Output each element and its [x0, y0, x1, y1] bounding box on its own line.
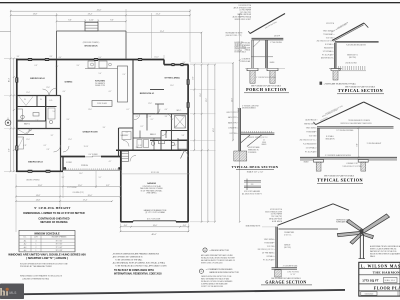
- svg-text:4'-0": 4'-0": [63, 91, 66, 93]
- svg-text:(SEE SECTIONS - TYP): (SEE SECTIONS - TYP): [226, 35, 243, 37]
- svg-text:12'-4": 12'-4": [68, 139, 72, 141]
- svg-text:KNEE: KNEE: [262, 142, 266, 144]
- svg-text:= SMOKE DETECTOR: = SMOKE DETECTOR: [210, 250, 230, 252]
- svg-text:R-13 WALL: R-13 WALL: [326, 135, 334, 138]
- svg-text:8'-0": 8'-0": [50, 56, 53, 58]
- svg-text:6X6 P.T. POST: 6X6 P.T. POST: [227, 112, 237, 114]
- svg-text:45: 45: [263, 140, 265, 142]
- svg-text:35" X 62": 35" X 62": [56, 241, 63, 243]
- svg-text:7/16" OSB: 7/16" OSB: [267, 246, 274, 248]
- svg-text:KITCHEN: KITCHEN: [95, 81, 105, 83]
- svg-text:CONT. FOOTING: CONT. FOOTING: [287, 272, 300, 274]
- svg-text:A-2: A-2: [24, 243, 27, 246]
- svg-text:11'-10": 11'-10": [154, 57, 159, 59]
- svg-text:= HURRICANE TIE ANCHORS (TYPIC: = HURRICANE TIE ANCHORS (TYPICAL): [324, 82, 356, 85]
- svg-text:- ALL MECHANICAL WORK (PLUMBIN: - ALL MECHANICAL WORK (PLUMBING, ELECTRI…: [112, 261, 166, 264]
- svg-text:9' CEILING HEIGHT: 9' CEILING HEIGHT: [367, 143, 382, 145]
- svg-text:5/12 PITCH: 5/12 PITCH: [326, 23, 334, 25]
- svg-text:4'-11": 4'-11": [23, 145, 27, 147]
- svg-text:h: h: [0, 288, 6, 299]
- svg-text:35" X 62": 35" X 62": [56, 244, 63, 246]
- svg-text:9' CEILING HEIGHT: 9' CEILING HEIGHT: [34, 206, 71, 210]
- svg-text:7/16" OSB (TYP): 7/16" OSB (TYP): [271, 216, 282, 218]
- svg-text:BEDROOM #1: BEDROOM #1: [347, 55, 358, 57]
- svg-text:GRADE: GRADE: [303, 161, 308, 164]
- svg-text:@ 16" O.C.: @ 16" O.C.: [284, 235, 292, 237]
- svg-text:(PRESSURE TREATED): (PRESSURE TREATED): [83, 41, 100, 44]
- svg-text:AND HARD WIRED/BATTERY BACK UP: AND HARD WIRED/BATTERY BACK UP AND: [201, 254, 234, 257]
- svg-text:MLS: MLS: [9, 291, 16, 295]
- svg-text:5'-4": 5'-4": [99, 73, 102, 75]
- svg-text:FLOOR PLAN: FLOOR PLAN: [374, 285, 400, 290]
- svg-text:EVERY LEVEL OF DWELLING: EVERY LEVEL OF DWELLING: [201, 262, 223, 264]
- svg-text:47'-6": 47'-6": [213, 128, 215, 132]
- svg-text:CONCRETE: CONCRETE: [242, 59, 250, 61]
- svg-text:10'-0": 10'-0": [170, 85, 174, 87]
- svg-text:INSULATION: INSULATION: [324, 47, 333, 50]
- svg-text:20'-0": 20'-0": [88, 195, 93, 197]
- svg-text:24'-2": 24'-2": [79, 173, 83, 175]
- svg-text:BEDROOM #1: BEDROOM #1: [140, 93, 155, 95]
- svg-text:4: 4: [36, 241, 37, 243]
- svg-text:6" T&G CEILING: 6" T&G CEILING: [270, 42, 282, 44]
- svg-text:CARBON MONOXIDE DETECTORS TO B: CARBON MONOXIDE DETECTORS TO BE: [201, 275, 231, 278]
- svg-text:GARAGE DOOR HEADER TO BE: GARAGE DOOR HEADER TO BE: [144, 209, 167, 212]
- svg-text:5/12 ROOF PITCH: 5/12 ROOF PITCH: [238, 5, 251, 7]
- svg-text:DRYWALL: DRYWALL: [267, 255, 274, 258]
- svg-text:- ANY OPENING KEY DIMENSION IS: - ANY OPENING KEY DIMENSION IS: [112, 255, 143, 258]
- svg-text:7/16" OSB: 7/16" OSB: [326, 37, 333, 39]
- svg-text:SIMPSON H2.5A HURRICANE TIE AN: SIMPSON H2.5A HURRICANE TIE ANCHORS: [340, 122, 371, 125]
- svg-text:3'-6": 3'-6": [67, 119, 70, 121]
- svg-text:SD: SD: [200, 271, 202, 273]
- svg-text:SCALE: 1/2" = 1'-0": SCALE: 1/2" = 1'-0": [247, 171, 264, 174]
- svg-text:COLUMNS (TYP): COLUMNS (TYP): [72, 192, 84, 194]
- svg-text:3'-1": 3'-1": [151, 119, 154, 121]
- svg-text:9'-0": 9'-0": [99, 57, 102, 59]
- svg-text:WINDOWS ARE UNITED VINYL DOUBL: WINDOWS ARE UNITED VINYL DOUBLE HUNG SER…: [8, 252, 86, 256]
- svg-text:3'-0": 3'-0": [183, 62, 186, 64]
- svg-text:35" X 38": 35" X 38": [56, 250, 63, 252]
- svg-text:ALUM. FASCIA: ALUM. FASCIA: [305, 119, 315, 122]
- svg-text:R-13 INSULATION: R-13 INSULATION: [303, 143, 316, 146]
- svg-text:GARAGE: GARAGE: [147, 182, 157, 185]
- svg-text:COLUMN: COLUMN: [243, 47, 250, 49]
- svg-text:4'-2": 4'-2": [182, 116, 185, 118]
- svg-text:PORCH: PORCH: [81, 165, 88, 167]
- svg-text:TYPICAL SECTION: TYPICAL SECTION: [338, 88, 383, 93]
- svg-text:GRADE BEAM NOTE:: GRADE BEAM NOTE:: [245, 224, 261, 227]
- svg-text:5'-8": 5'-8": [182, 135, 185, 137]
- svg-text:2'-8": 2'-8": [171, 119, 174, 121]
- svg-text:6'-2": 6'-2": [174, 145, 177, 147]
- svg-text:3'-8": 3'-8": [165, 116, 168, 118]
- svg-text:GREAT ROOM: GREAT ROOM: [83, 130, 98, 133]
- svg-text:16'-0": 16'-0": [153, 225, 158, 227]
- svg-text:TURN DOWN 12" FOOTING: TURN DOWN 12" FOOTING: [342, 166, 362, 168]
- svg-text:25'-6": 25'-6": [231, 98, 233, 102]
- svg-text:2'-6": 2'-6": [167, 140, 170, 142]
- svg-text:1/2" CEILING DRYWALL: 1/2" CEILING DRYWALL: [336, 129, 353, 132]
- svg-text:14'-8": 14'-8": [36, 200, 41, 202]
- svg-text:6'-1": 6'-1": [127, 109, 130, 111]
- svg-text:TYPICAL SECTION: TYPICAL SECTION: [317, 178, 363, 183]
- svg-text:CL: CL: [24, 99, 26, 101]
- svg-text:GARAGE SECTION: GARAGE SECTION: [265, 280, 306, 284]
- svg-text:8'-0": 8'-0": [193, 76, 195, 79]
- svg-text:11'-0": 11'-0": [78, 185, 83, 187]
- svg-text:VINYL SIDING: VINYL SIDING: [264, 239, 275, 241]
- svg-text:5'-1": 5'-1": [99, 177, 102, 179]
- svg-text:3 1/2" ROUND: 3 1/2" ROUND: [67, 187, 76, 189]
- svg-text:R-13 WALL: R-13 WALL: [325, 43, 333, 46]
- svg-text:2'-8": 2'-8": [47, 149, 50, 151]
- svg-text:P.T. SILL PLATE: P.T. SILL PLATE: [263, 258, 274, 261]
- svg-text:L.CL: L.CL: [49, 100, 52, 102]
- svg-text:(UNLESS OTHERWISE NOTED): (UNLESS OTHERWISE NOTED): [23, 278, 50, 280]
- svg-text:13'-8": 13'-8": [33, 14, 38, 16]
- svg-text:9'-0": 9'-0": [357, 143, 359, 147]
- svg-text:2X4 STUDS @ 16" O.C.: 2X4 STUDS @ 16" O.C.: [258, 249, 275, 251]
- svg-text:15# FELT PAPER: 15# FELT PAPER: [337, 21, 350, 30]
- svg-text:TO BE INSTALLED ACCORDING TO A: TO BE INSTALLED ACCORDING TO ALL APPLICA…: [115, 264, 167, 267]
- svg-text:R-38 CEILING INSULATION: R-38 CEILING INSULATION: [346, 44, 366, 47]
- svg-text:PROVIDED BY THE MANUFACTURER: PROVIDED BY THE MANUFACTURER: [20, 265, 52, 268]
- svg-text:TYVEK WRAP: TYVEK WRAP: [306, 131, 316, 134]
- svg-text:4'-10": 4'-10": [89, 20, 94, 22]
- svg-text:5'-8": 5'-8": [36, 120, 39, 122]
- svg-text:( SMARTER LOW "E" ) ARGON ): ( SMARTER LOW "E" ) ARGON ): [26, 256, 68, 260]
- svg-text:21'-4": 21'-4": [160, 31, 165, 33]
- svg-text:ROUGH OPENING: ROUGH OPENING: [52, 237, 67, 239]
- svg-text:FOYER: FOYER: [66, 162, 72, 164]
- svg-text:17'-4": 17'-4": [83, 200, 88, 202]
- svg-text:CONCRETE: CONCRETE: [248, 152, 256, 154]
- svg-text:16" X 8": 16" X 8": [290, 274, 296, 276]
- svg-text:TYPICAL DECK SECTION: TYPICAL DECK SECTION: [232, 165, 279, 169]
- svg-text:A-4: A-4: [24, 249, 27, 252]
- svg-text:4'-6": 4'-6": [165, 109, 168, 111]
- svg-text:W.I.C.: W.I.C.: [177, 110, 182, 112]
- svg-text:7/16" OSB (TYP): 7/16" OSB (TYP): [240, 12, 252, 14]
- svg-text:PORCH SECTION: PORCH SECTION: [246, 87, 287, 92]
- svg-text:2: 2: [36, 247, 37, 249]
- svg-text:BASE (TYP): BASE (TYP): [228, 121, 237, 124]
- svg-text:TO BE BUILT IN COMPLIANCE WITH: TO BE BUILT IN COMPLIANCE WITH: [114, 269, 154, 272]
- svg-text:21'-4": 21'-4": [156, 14, 161, 16]
- svg-text:GRADE: GRADE: [270, 61, 275, 64]
- svg-text:CARBON MONOXIDE DETECTOR: CARBON MONOXIDE DETECTOR: [209, 271, 239, 274]
- svg-text:VINYL SIDING: VINYL SIDING: [323, 31, 334, 33]
- svg-text:4'-1": 4'-1": [109, 161, 112, 163]
- svg-text:5'-0": 5'-0": [53, 111, 56, 113]
- svg-text:SITTING AREA: SITTING AREA: [164, 77, 180, 80]
- svg-text:U210 JOIST HANGERS: U210 JOIST HANGERS: [244, 190, 260, 193]
- svg-text:TRUSS DESIGN BY OTHERS: TRUSS DESIGN BY OTHERS: [348, 120, 370, 122]
- svg-text:P.T. SILL PLATE: P.T. SILL PLATE: [322, 53, 333, 56]
- svg-text:1/2" DRYWALL: 1/2" DRYWALL: [306, 147, 316, 150]
- svg-text:(HB&G): (HB&G): [245, 50, 251, 52]
- svg-text:9'-6": 9'-6": [68, 20, 72, 22]
- svg-text:16' X 7' O.H. DOOR: 16' X 7' O.H. DOOR: [147, 218, 161, 220]
- svg-text:5'-0": 5'-0": [175, 126, 178, 128]
- svg-text:TYVEK WRAP: TYVEK WRAP: [264, 241, 274, 244]
- svg-text:SIMPSON H2.5A: SIMPSON H2.5A: [336, 218, 348, 221]
- svg-text:2'-10": 2'-10": [28, 130, 32, 132]
- svg-text:5/8" FIRE RATED: 5/8" FIRE RATED: [262, 252, 275, 255]
- svg-text:9'-8": 9'-8": [9, 148, 11, 152]
- svg-text:14'-8": 14'-8": [36, 195, 41, 197]
- svg-text:2'-6": 2'-6": [56, 66, 59, 68]
- svg-text:GALV. POST: GALV. POST: [228, 116, 237, 119]
- svg-text:TO BE CENTERED IN THE WALL: TO BE CENTERED IN THE WALL: [115, 258, 142, 261]
- svg-text:THE HARMONY: THE HARMONY: [373, 271, 400, 275]
- svg-text:A HURRICANE TIE WILL BE INSTAL: A HURRICANE TIE WILL BE INSTALLED AT: [370, 245, 400, 248]
- svg-text:HURRICANE TIE NOTE:: HURRICANE TIE NOTE:: [226, 31, 244, 34]
- svg-text:4X4 POST BASE: 4X4 POST BASE: [248, 146, 260, 149]
- svg-text:METHOD OF FRAMING: METHOD OF FRAMING: [40, 221, 67, 224]
- svg-text:CONCRETE FLOOR SLAB: CONCRETE FLOOR SLAB: [142, 185, 160, 188]
- svg-text:CONCRETE: CONCRETE: [228, 128, 236, 130]
- svg-text:- EXTERIOR DIMENSIONS ARE FRAM: - EXTERIOR DIMENSIONS ARE FRAMING DIMENS…: [112, 252, 160, 255]
- svg-text:BEDROOM #2: BEDROOM #2: [30, 78, 45, 80]
- svg-text:2'-1": 2'-1": [126, 132, 129, 134]
- svg-text:GARAGE: GARAGE: [284, 244, 290, 247]
- svg-text:1: 1: [36, 250, 37, 252]
- svg-text:QTY: QTY: [34, 237, 38, 239]
- svg-text:41'-0": 41'-0": [97, 10, 102, 12]
- svg-text:EMBEDDED IN: EMBEDDED IN: [248, 149, 258, 151]
- svg-text:A-1: A-1: [24, 240, 27, 243]
- svg-text:2'-0": 2'-0": [123, 74, 126, 76]
- svg-text:5'-0": 5'-0": [149, 116, 152, 118]
- svg-text:6'-5": 6'-5": [44, 145, 47, 147]
- svg-text:6'-0" SLIDER: 6'-0" SLIDER: [89, 154, 99, 156]
- svg-text:ANCHOR BOLTS: ANCHOR BOLTS: [321, 57, 333, 60]
- svg-text:12'-8": 12'-8": [46, 87, 50, 89]
- svg-text:3'-0": 3'-0": [136, 147, 139, 149]
- svg-text:VENTED VINYL SOFFIT: VENTED VINYL SOFFIT: [234, 19, 251, 21]
- svg-text:VINYL SIDING: VINYL SIDING: [306, 128, 317, 130]
- svg-text:3'-2": 3'-2": [51, 135, 54, 137]
- svg-text:6" TONGUE & GROOVE: 6" TONGUE & GROOVE: [242, 105, 259, 107]
- svg-text:#4 REBAR CONT.: #4 REBAR CONT.: [346, 162, 359, 165]
- svg-text:INTERNATIONAL RESIDENTIAL CODE: INTERNATIONAL RESIDENTIAL CODE 2018: [114, 272, 162, 275]
- svg-text:3'-4": 3'-4": [103, 127, 106, 129]
- svg-text:BEDROOM #3: BEDROOM #3: [28, 162, 43, 164]
- svg-text:2X4 STUDS @ 16" O.C.: 2X4 STUDS @ 16" O.C.: [317, 41, 334, 43]
- svg-text:5'-2": 5'-2": [136, 116, 139, 118]
- svg-text:DIMENSIONAL LUMBER TO BE #2 SY: DIMENSIONAL LUMBER TO BE #2 SYP OR BETTE…: [23, 212, 85, 215]
- svg-text:DINING: DINING: [65, 82, 73, 84]
- svg-text:1/2" DRYWALL: 1/2" DRYWALL: [323, 50, 333, 53]
- svg-text:2X6 RAFTERS: 2X6 RAFTERS: [284, 231, 294, 234]
- svg-text:4'-8": 4'-8": [124, 225, 128, 227]
- svg-text:6'-8": 6'-8": [35, 65, 38, 67]
- svg-text:23'-4": 23'-4": [88, 14, 93, 16]
- svg-text:5'-1": 5'-1": [62, 177, 65, 179]
- svg-text:4'-8": 4'-8": [183, 225, 187, 227]
- svg-text:71" X 62": 71" X 62": [56, 247, 63, 249]
- svg-text:3'-0": 3'-0": [17, 56, 20, 58]
- svg-text:7/16" OSB: 7/16" OSB: [309, 136, 316, 138]
- svg-text:4" CONCRETE SLAB W/ 6X6 W.W.M.: 4" CONCRETE SLAB W/ 6X6 W.W.M.: [325, 154, 352, 157]
- svg-text:15# FELT PAPER 7/16" OSB: 15# FELT PAPER 7/16" OSB: [324, 105, 343, 116]
- svg-text:11'-4": 11'-4": [26, 92, 30, 94]
- svg-text:10'-4": 10'-4": [9, 77, 11, 82]
- svg-text:= COMBINATION SMOKE AND: = COMBINATION SMOKE AND: [206, 268, 233, 271]
- svg-text:2X8: 2X8: [251, 184, 254, 186]
- svg-text:5'-10": 5'-10": [138, 145, 142, 147]
- svg-text:25'-2": 25'-2": [206, 98, 208, 102]
- svg-text:WINDOW SCHEDULE: WINDOW SCHEDULE: [34, 232, 60, 235]
- svg-text:1773 SQ FT: 1773 SQ FT: [362, 279, 379, 283]
- svg-text:2X4 STUDS @ 16" O.C.: 2X4 STUDS @ 16" O.C.: [300, 140, 317, 142]
- svg-text:1: 1: [36, 244, 37, 246]
- svg-text:16'-4": 16'-4": [200, 93, 202, 97]
- svg-text:2X4 BLOCKING: 2X4 BLOCKING: [345, 63, 357, 65]
- svg-text:9'-6": 9'-6": [110, 20, 114, 22]
- svg-text:W/ CABINETS: W/ CABINETS: [95, 82, 105, 85]
- svg-text:2X8 SYP: 2X8 SYP: [274, 36, 280, 38]
- svg-text:L. WILSON MASON: L. WILSON MASON: [361, 264, 400, 268]
- svg-text:46'-0": 46'-0": [151, 234, 156, 236]
- svg-text:8'-2": 8'-2": [106, 185, 110, 187]
- svg-text:6" CONCRETE FILLED PIERS: 6" CONCRETE FILLED PIERS: [256, 77, 276, 79]
- svg-text:(BEYOND): (BEYOND): [284, 247, 291, 249]
- svg-text:SD: SD: [204, 250, 206, 252]
- svg-text:ARCHED OPENING: ARCHED OPENING: [26, 179, 40, 182]
- svg-text:I.D.: I.D.: [24, 237, 27, 239]
- svg-text:CL: CL: [40, 99, 42, 101]
- svg-text:8" ROUND: 8" ROUND: [243, 43, 251, 45]
- svg-text:4'-4": 4'-4": [59, 57, 62, 59]
- svg-text:A-3: A-3: [24, 246, 27, 249]
- svg-text:SCALE: 1/4"=1': SCALE: 1/4"=1': [384, 279, 396, 282]
- svg-text:BATH 1: BATH 1: [150, 133, 156, 136]
- svg-text:BATH 2: BATH 2: [24, 122, 30, 125]
- svg-text:P.T. SILL PLATE: P.T. SILL PLATE: [305, 151, 316, 154]
- svg-text:4" CONCRETE SLAB: 4" CONCRETE SLAB: [283, 264, 297, 267]
- svg-text:11'-0": 11'-0": [26, 139, 30, 141]
- svg-text:WINDOW AND DOOR HEADERS TO BE: WINDOW AND DOOR HEADERS TO BE (2) 2X10'S: [20, 275, 63, 278]
- svg-text:12'-8": 12'-8": [148, 103, 152, 105]
- svg-text:(BEYOND): (BEYOND): [349, 57, 357, 59]
- svg-text:VENTED SOFFIT: VENTED SOFFIT: [304, 124, 316, 126]
- svg-text:06/25/2020: 06/25/2020: [365, 293, 374, 295]
- svg-text:5/12 ROOF PITCH: 5/12 ROOF PITCH: [270, 209, 282, 211]
- svg-text:15'-8": 15'-8": [38, 185, 43, 187]
- svg-text:3'-0": 3'-0": [77, 65, 80, 67]
- svg-text:FOOTING: FOOTING: [230, 133, 238, 135]
- svg-text:VICINITY OF THE BEDROOMS: VICINITY OF THE BEDROOMS: [201, 286, 223, 288]
- svg-text:WORK ISLAND: WORK ISLAND: [97, 102, 107, 105]
- svg-text:ROOF LINE: ROOF LINE: [151, 172, 159, 174]
- svg-text:13'-0": 13'-0": [88, 109, 92, 111]
- svg-text:WOOD DECK: WOOD DECK: [84, 46, 98, 48]
- svg-text:4'-1": 4'-1": [109, 91, 112, 93]
- svg-text:15'-10": 15'-10": [84, 146, 89, 148]
- svg-text:8'-2": 8'-2": [141, 126, 144, 128]
